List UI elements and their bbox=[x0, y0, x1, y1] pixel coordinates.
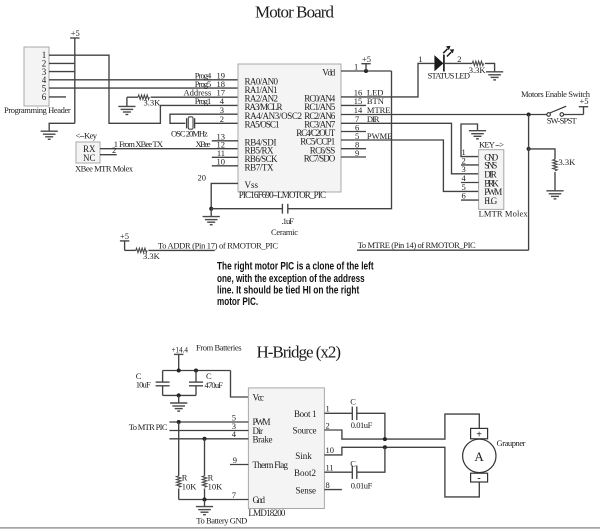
resistor R 10K (PWM pulldown) bbox=[177, 422, 198, 500]
svg-text:To ADDR (Pin 17) of RMOTOR_PIC: To ADDR (Pin 17) of RMOTOR_PIC bbox=[158, 240, 278, 250]
svg-text:Vss: Vss bbox=[245, 180, 259, 190]
wire PIC pin3 to crystal bbox=[170, 114, 238, 123]
wire Sink pin10 to motor minus bbox=[324, 445, 479, 497]
ground (LMTR molex GND loop) bbox=[461, 124, 486, 157]
wire PIC pin20 Vss to ground bbox=[211, 183, 238, 208]
wire To ADDR of RMOTOR_PIC bbox=[148, 240, 278, 250]
svg-text:To Battery GND: To Battery GND bbox=[196, 516, 247, 526]
switch SW-SPST bbox=[547, 106, 578, 125]
svg-text:Boot 1: Boot 1 bbox=[294, 409, 317, 419]
svg-text:LMD18200: LMD18200 bbox=[248, 508, 286, 518]
svg-text:RB7/TX: RB7/TX bbox=[245, 162, 275, 172]
IC U1 PIC16F690 LMOTOR_PIC bbox=[238, 64, 341, 200]
svg-text:10K: 10K bbox=[182, 481, 198, 491]
capacitor C 10uF bbox=[136, 371, 170, 396]
wire PIC pin6 stub bbox=[341, 131, 366, 133]
svg-text:A: A bbox=[474, 449, 484, 464]
svg-text:C: C bbox=[350, 458, 356, 468]
svg-text:Brake: Brake bbox=[253, 434, 273, 444]
wire PIC pin16 LED net to status LED anode bbox=[341, 63, 434, 97]
svg-text:7: 7 bbox=[232, 490, 236, 500]
svg-text:3.3K: 3.3K bbox=[143, 251, 161, 261]
power +5 (switch) bbox=[579, 96, 589, 115]
wire To MTRE of RMOTOR_PIC bbox=[357, 240, 529, 250]
power +5 (Vdd) bbox=[361, 54, 371, 71]
wire Boot1 capacitor to Source rail bbox=[357, 413, 385, 439]
wire PWM pin5 bbox=[169, 412, 248, 424]
svg-text:2: 2 bbox=[326, 420, 330, 430]
svg-text:2: 2 bbox=[457, 54, 461, 64]
wire header pin1 to PIC pin4 (Prog1) bbox=[49, 55, 238, 123]
wire address line resistor to PIC pin17 bbox=[151, 96, 238, 98]
svg-text:.1uF: .1uF bbox=[282, 216, 295, 226]
wire PIC pin7 DIR to LMTR molex pin3 bbox=[341, 123, 479, 174]
svg-text:10K: 10K bbox=[208, 481, 224, 491]
svg-text:+5: +5 bbox=[579, 96, 588, 106]
resistor R 3.3K (LED) bbox=[469, 61, 487, 75]
svg-text:0.01uF: 0.01uF bbox=[351, 420, 373, 430]
motor M1 Graupner bbox=[463, 428, 526, 484]
wire battery bottom rail to ground bbox=[163, 393, 196, 403]
svg-text:From XBee TX: From XBee TX bbox=[119, 139, 163, 149]
wire Boot1 pin1 to capacitor bbox=[324, 404, 351, 414]
power +5 (programming header) bbox=[70, 28, 80, 38]
svg-text:OSC 20MHz: OSC 20MHz bbox=[171, 128, 208, 138]
svg-text:0.01uF: 0.01uF bbox=[351, 481, 373, 491]
wire Boot2 pin11 to capacitor bbox=[324, 463, 351, 473]
svg-text:1: 1 bbox=[326, 404, 330, 414]
resistor R 3.3K (address pulldown) bbox=[127, 95, 161, 108]
wire Source pin2 to motor plus bbox=[324, 414, 479, 441]
svg-text:The right motor PIC is a clone: The right motor PIC is a clone of the le… bbox=[217, 261, 374, 273]
svg-text:DIR: DIR bbox=[367, 114, 380, 124]
svg-text:Vdd: Vdd bbox=[322, 68, 336, 78]
svg-text:3.3K: 3.3K bbox=[469, 65, 487, 75]
wire PIC pin11 stub bbox=[212, 156, 238, 158]
ground (below programming header) bbox=[41, 131, 58, 139]
svg-text:9: 9 bbox=[233, 455, 237, 465]
svg-text:RA5/OSC1: RA5/OSC1 bbox=[245, 120, 280, 130]
svg-text:+5: +5 bbox=[120, 231, 129, 241]
svg-text:To MTR PIC: To MTR PIC bbox=[129, 422, 168, 432]
svg-text:line. It should be tied HI on: line. It should be tied HI on the right bbox=[217, 285, 360, 297]
wire resistor to ground bbox=[485, 63, 495, 71]
svg-text:H-Bridge (x2): H-Bridge (x2) bbox=[257, 343, 342, 362]
svg-text:To MTRE (Pin 14) of RMOTOR_PIC: To MTRE (Pin 14) of RMOTOR_PIC bbox=[358, 240, 476, 250]
svg-text:Ceramic: Ceramic bbox=[271, 227, 298, 237]
svg-text:6: 6 bbox=[462, 191, 466, 201]
wire Gnd pin7 rail bbox=[179, 490, 249, 502]
svg-text:Motor Board: Motor Board bbox=[255, 2, 335, 21]
capacitor C 0.01uF (Boot2) bbox=[350, 458, 372, 490]
LMTR molex pin stubs and numbers bbox=[461, 147, 479, 201]
wire switch to +5 bbox=[564, 114, 584, 116]
pin labels left of PIC bbox=[183, 71, 225, 183]
svg-text:-: - bbox=[477, 473, 480, 484]
svg-text:Programming Header: Programming Header bbox=[4, 105, 71, 115]
wire capacitor to Vdd riser bbox=[288, 71, 392, 209]
wire header pin4 to PIC pin19 Prog4 bbox=[49, 79, 238, 81]
svg-text:Graupner: Graupner bbox=[497, 438, 526, 448]
connector J2 LMTR Molex bbox=[479, 140, 529, 219]
wire Boot2 capacitor to Sink rail bbox=[357, 447, 385, 472]
power +14.4 From Batteries bbox=[172, 342, 242, 370]
svg-text:2: 2 bbox=[112, 145, 116, 155]
svg-text:PIC16F690--LMOTOR_PIC: PIC16F690--LMOTOR_PIC bbox=[239, 190, 326, 200]
svg-text:+5: +5 bbox=[71, 28, 80, 38]
wire PIC pin8 stub bbox=[341, 148, 366, 150]
svg-text:Sense: Sense bbox=[296, 485, 317, 495]
wire PIC pin9 stub bbox=[341, 156, 366, 158]
svg-text:+5: +5 bbox=[362, 54, 371, 64]
capacitor C 0.01uF (Boot1) bbox=[350, 397, 372, 431]
ground (address pulldown) bbox=[118, 97, 135, 114]
wire header pin6 stub bbox=[49, 96, 66, 98]
wire crystal to PIC pin2 bbox=[195, 122, 238, 124]
svg-text:From Batteries: From Batteries bbox=[196, 342, 242, 352]
svg-text:11: 11 bbox=[326, 463, 334, 473]
power +5 (ADDR pull of RMOTOR_PIC) bbox=[120, 231, 129, 251]
svg-text:LMTR Molex: LMTR Molex bbox=[479, 209, 529, 219]
capacitor C 470uF bbox=[189, 371, 223, 396]
wire XBee molex pin2 stub bbox=[100, 145, 117, 155]
svg-text:XBee: XBee bbox=[196, 139, 211, 149]
wire PIC pin5 PWME to LMTR molex pin5 bbox=[341, 140, 479, 191]
svg-text:Therm Flag: Therm Flag bbox=[253, 460, 289, 470]
svg-text:20: 20 bbox=[198, 172, 207, 182]
wire ground to capacitor C .1uF bbox=[211, 208, 282, 210]
connector J1 Programming Header bbox=[4, 47, 71, 115]
svg-text:3.3K: 3.3K bbox=[144, 98, 162, 108]
svg-text:Boot2: Boot2 bbox=[294, 468, 316, 478]
note text block bbox=[217, 261, 374, 308]
wire PIC pin13 stub bbox=[212, 140, 238, 142]
svg-text:motor PIC.: motor PIC. bbox=[217, 296, 258, 308]
wire rail to LMD18200 Vcc bbox=[231, 371, 249, 398]
svg-text:+14.4: +14.4 bbox=[172, 344, 189, 354]
wire XBee molex pin1 to PIC pin12 (From XBee TX) bbox=[100, 139, 238, 149]
capacitor C .1uF Ceramic bbox=[271, 204, 298, 237]
node MTRE junction and riser to To-MTRE line bbox=[527, 113, 531, 251]
LED D1 STATUS LED bbox=[418, 46, 470, 81]
resistor R 10K (Brake pulldown) bbox=[202, 439, 223, 500]
svg-text:Prog1: Prog1 bbox=[195, 96, 212, 106]
resistor R 3.3K (MTRE pull) bbox=[529, 149, 577, 171]
ground (battery filter) bbox=[170, 403, 187, 411]
svg-text:one, with the exception of the: one, with the exception of the address bbox=[217, 273, 365, 285]
ground (status LED) bbox=[486, 72, 503, 80]
svg-text:6: 6 bbox=[42, 92, 47, 102]
svg-text:XBee MTR Molex: XBee MTR Molex bbox=[75, 163, 134, 173]
ground (Vss / decoupling) bbox=[203, 207, 220, 225]
svg-text:2: 2 bbox=[220, 114, 224, 124]
svg-text:KEY -->: KEY --> bbox=[479, 140, 504, 150]
wire Sense pin8 stub bbox=[324, 480, 342, 490]
wire battery top rail bbox=[163, 369, 231, 373]
pin labels right of PIC bbox=[354, 61, 393, 158]
crystal OSC 20MHz bbox=[171, 117, 208, 139]
svg-text:RC7/SDO: RC7/SDO bbox=[304, 154, 336, 164]
page bottom edge line bbox=[0, 527, 600, 529]
wire Dir pin3 bbox=[169, 421, 248, 431]
wire PIC pin14 MTRE to switch bbox=[341, 114, 547, 116]
svg-text:Gnd: Gnd bbox=[253, 495, 266, 505]
svg-text:10: 10 bbox=[217, 157, 226, 167]
ground (To Battery GND) bbox=[196, 500, 247, 526]
svg-text:FLG: FLG bbox=[484, 196, 498, 206]
svg-text:Sink: Sink bbox=[295, 451, 312, 461]
svg-text:Source: Source bbox=[293, 426, 317, 436]
svg-text:470uF: 470uF bbox=[205, 380, 224, 390]
svg-text:1: 1 bbox=[354, 61, 358, 71]
svg-text:3.3K: 3.3K bbox=[559, 157, 577, 167]
svg-text:Vcc: Vcc bbox=[253, 392, 265, 402]
wire PIC pin1 Vdd to +5 and riser bbox=[341, 69, 392, 73]
svg-text:1: 1 bbox=[418, 54, 422, 64]
wire +5 down to header pin2 and pin3 to ground bbox=[49, 38, 75, 131]
wire Therm Flag pin9 stub bbox=[230, 455, 248, 465]
wire PIC pin10 stub bbox=[212, 165, 238, 167]
svg-text:10uF: 10uF bbox=[136, 380, 151, 390]
wire Brake pin4 bbox=[169, 429, 248, 441]
svg-text:NC: NC bbox=[83, 153, 96, 163]
wire resistor to ground bbox=[554, 172, 556, 191]
wire header pin5 to PIC pin18 Prog5 bbox=[49, 87, 238, 89]
resistor R 3.3K (ADDR of RMOTOR_PIC) bbox=[125, 248, 161, 261]
IC U2 LMD18200 bbox=[248, 388, 324, 518]
svg-text:C: C bbox=[350, 397, 356, 407]
wire LED cathode to resistor bbox=[444, 62, 472, 64]
svg-text:SW-SPST: SW-SPST bbox=[547, 116, 578, 126]
svg-text:STATUS LED: STATUS LED bbox=[428, 71, 471, 81]
ground (MTRE pull resistor) bbox=[546, 191, 563, 199]
connector XBee MTR Molex bbox=[75, 130, 134, 173]
svg-text:8: 8 bbox=[326, 480, 330, 490]
svg-text:PWME: PWME bbox=[367, 131, 393, 141]
svg-text:10: 10 bbox=[326, 445, 335, 455]
wire PIC pin15 stub bbox=[341, 104, 366, 106]
svg-text:<--Key: <--Key bbox=[76, 130, 98, 140]
